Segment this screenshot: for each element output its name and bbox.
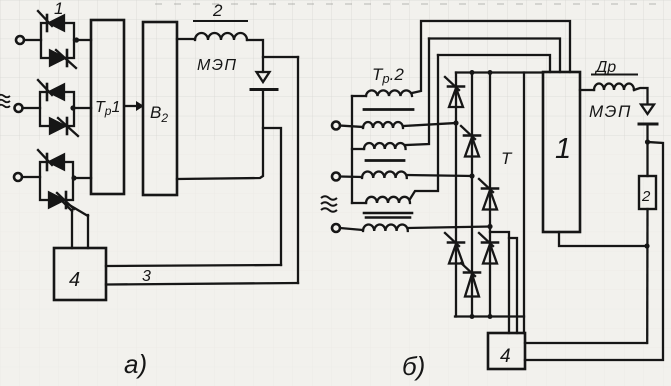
bridge top bus [456,71,543,73]
thyristor T5 (up) [479,233,498,264]
node dot [645,139,650,144]
bus junction dots [470,70,475,75]
svg-text:1: 1 [555,133,571,165]
label 2 underline [194,20,247,22]
gate wires to control box b [490,232,517,333]
wire to electrode [634,88,648,104]
wire B2 to choke 2 [177,38,195,40]
thyristor T2 (up) [461,126,480,157]
thyristor T4 (up) [445,233,464,264]
svg-text:б): б) [402,351,425,381]
control box 4 (b) [488,333,525,369]
inductor 2 [195,33,247,40]
thyristor T6 (up) [461,263,480,297]
node dot [71,175,76,180]
terminal b-phase1 [332,122,340,130]
wire resistor down [646,209,649,343]
pair 2 loop rectangle [40,92,74,126]
svg-text:Др: Др [594,59,616,76]
node dot [70,105,75,110]
wire [340,126,363,128]
svg-text:2: 2 [641,188,651,205]
MEP arrow electrode [257,72,270,82]
bridge rail 1 [455,73,457,317]
wire D to rail 2 [407,175,472,176]
inductor Dr [594,84,634,91]
label Dr underline [592,74,637,76]
resistor 2 box [639,176,656,209]
wire branch to feedback [263,56,298,58]
wire [340,175,362,178]
svg-text:Т: Т [501,149,513,168]
arrow Tr1 to B2 [126,101,144,111]
svg-text:4: 4 [500,346,511,367]
thyristor pair2 top (points left) [38,80,64,100]
bridge bottom bus [455,315,524,317]
thyristor pair3 top (points left) [38,150,64,170]
terminal a-phase3 [14,173,22,181]
wire C loop to box1 top [429,39,560,73]
winding A secondary [352,90,412,96]
thyristor pair2 bottom (points right) [50,118,78,136]
svg-text:МЭП: МЭП [589,102,632,121]
winding D primary [362,171,407,178]
wire plate to resistor [646,126,648,176]
top edge scan marks [155,3,668,5]
core 2 [366,159,404,162]
wire feedback right vertical [297,57,299,283]
wire box4b to load bottom [525,342,647,344]
three-phase mark a [0,95,10,108]
control box 4 (a) [54,248,106,300]
wire [247,40,263,72]
box B2 [143,22,177,195]
wire C up to ring 2 [406,39,429,146]
winding E secondary [352,197,410,203]
core 3 double [364,213,412,218]
wire [24,39,41,41]
wire E loop to box1 top [438,55,550,72]
node dot [644,243,649,248]
wire [340,228,363,230]
svg-text:МЭП: МЭП [197,57,238,74]
bridge rail 3 [489,73,491,317]
box Tr1 [91,20,124,194]
svg-text:4: 4 [69,269,80,291]
wire box4b outer loop [525,142,663,360]
wire [74,107,91,109]
three-phase mark b [321,196,337,212]
svg-text:1: 1 [54,0,63,18]
wire box1 bottom to node [559,232,647,246]
thyristor T1 (up) [445,77,464,107]
wire [74,39,91,41]
svg-text:3: 3 [142,268,151,285]
thyristor pair3 bottom (points right) [49,192,74,209]
node dots phase taps [453,120,458,125]
thyristor pair1 bottom (points right) [50,50,76,68]
thyristor pair1 top (points left) [38,11,64,31]
winding F primary [363,224,408,231]
terminal a-phase2 [15,104,23,112]
wire tap to control [263,128,281,265]
terminal b-phase2 [332,173,340,181]
node dot [74,37,79,42]
pair 1 loop rectangle [41,23,74,58]
box 1 [543,72,580,232]
MEP arrow electrode b [641,105,654,115]
wire E up to ring 3 [410,55,438,199]
wire F to rail 3 [408,227,490,229]
wire plate down to return [177,91,263,179]
thyristor T3 (up) [479,179,498,210]
winding C secondary [352,143,406,149]
gate wires pair3 to control box [60,199,88,248]
winding B primary [363,122,403,128]
wire B to rail 1 [403,123,456,126]
MEP plate b [639,123,657,126]
terminal a-phase1 [16,36,24,44]
wire [73,177,91,179]
pair 3 loop rectangle [40,162,73,200]
bridge rail 2 [471,73,473,317]
core 1 [364,108,413,111]
terminal b-phase3 [332,224,340,232]
wire [22,176,40,178]
wire A loop to box1 top [412,21,570,93]
svg-text:а): а) [124,349,147,379]
svg-text:2: 2 [212,1,223,20]
wire [23,107,41,109]
secondary star bus [351,96,353,203]
rail 4 from bus to control box [523,73,525,334]
wire 3 lower [106,283,298,285]
wire 3 upper [106,265,281,266]
wire box1 to choke Dr [580,89,594,91]
MEP plate [251,88,277,91]
